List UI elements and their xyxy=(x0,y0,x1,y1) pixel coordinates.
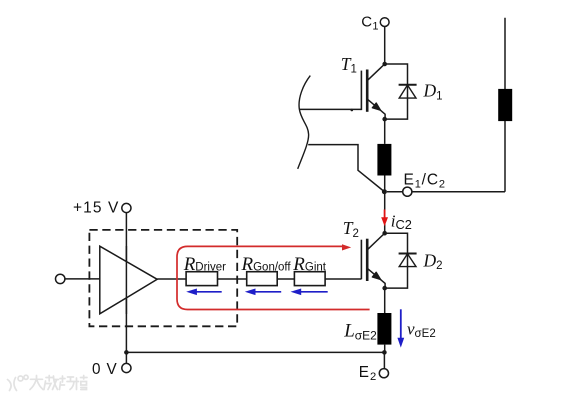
resistor RGint xyxy=(294,272,325,286)
blue arrow under RDriver xyxy=(186,289,222,296)
svg-text:E1/C2: E1/C2 xyxy=(404,171,446,190)
terminal E2 xyxy=(379,369,388,378)
transistor T2 xyxy=(360,240,362,280)
wire D2 branch xyxy=(385,233,408,288)
wire RGon/off to RGint xyxy=(277,278,294,280)
wire +15V vertical xyxy=(125,212,127,352)
wire bottom rail xyxy=(126,351,384,353)
wire E1/C2 to right branch xyxy=(387,191,403,193)
svg-text:T2: T2 xyxy=(343,218,359,240)
transistor T1 xyxy=(360,71,362,111)
node E2 xyxy=(382,350,387,355)
terminal driver input xyxy=(56,274,65,283)
resistor RGon/off xyxy=(247,272,278,286)
wire right branch vertical xyxy=(504,18,506,192)
wire upper emitter return xyxy=(308,145,384,192)
svg-text:C1: C1 xyxy=(361,13,378,32)
svg-text:D1: D1 xyxy=(423,81,443,103)
wire T2 emitter to L xyxy=(384,288,386,313)
blue arrow under RGon/off xyxy=(245,289,281,296)
red gate-current loop xyxy=(177,246,370,309)
wire D1 branch xyxy=(385,64,408,119)
node T2 collector xyxy=(382,231,387,236)
wire E2 stub xyxy=(383,352,385,369)
blue arrow under RGint xyxy=(291,289,328,296)
diode D2 xyxy=(399,253,417,255)
wire RGint to T2 gate xyxy=(325,278,361,280)
svg-text:LσE2: LσE2 xyxy=(343,321,377,343)
wire RDriver to RGon/off xyxy=(218,278,247,280)
wire L to E2 node xyxy=(384,345,386,353)
svg-text:RDriver: RDriver xyxy=(183,254,226,275)
svg-text:+15 V: +15 V xyxy=(73,199,119,216)
wire C1 to T1 collector node xyxy=(384,26,386,64)
wire E1/C2 down to T2 collector xyxy=(384,192,386,234)
wire 0V stub xyxy=(125,352,127,363)
svg-text:iC2: iC2 xyxy=(391,212,412,233)
inductor LsigmaE2 xyxy=(377,313,391,345)
node T1 collector xyxy=(382,62,387,67)
wire driver output xyxy=(157,278,186,280)
inductor right branch xyxy=(498,89,512,121)
svg-text:D2: D2 xyxy=(423,250,443,272)
svg-text:E2: E2 xyxy=(359,364,377,383)
watermark xyxy=(8,375,88,390)
node T1 emitter xyxy=(382,117,387,122)
wire T1 emitter to E1/C2 xyxy=(384,119,386,144)
blue arrow vsigmaE2 xyxy=(397,309,404,347)
wire T1 gate xyxy=(300,108,361,110)
node T2 emitter xyxy=(382,286,387,291)
inductor (stray) upper emitter xyxy=(377,144,391,176)
wire driver input xyxy=(65,278,100,280)
terminal E1/C2 xyxy=(403,187,412,196)
svg-text:0 V: 0 V xyxy=(92,361,118,378)
svg-text:RGon/off: RGon/off xyxy=(241,254,292,275)
node 0V rail xyxy=(124,350,129,355)
terminal 0V xyxy=(122,363,131,372)
svg-text:RGint: RGint xyxy=(292,254,327,275)
wire +15V through triangle xyxy=(125,246,127,314)
break squiggle (upper driver omitted) xyxy=(298,76,311,169)
dashed box driver xyxy=(89,230,237,326)
op-amp driver triangle xyxy=(100,246,157,314)
svg-text:vσE2: vσE2 xyxy=(407,319,436,340)
terminal +15V xyxy=(122,203,131,212)
terminal C1 xyxy=(380,18,389,27)
red arrow iC2 xyxy=(381,210,388,227)
node E1/C2 xyxy=(382,189,387,194)
red loop arrow to T2 gate xyxy=(342,244,351,250)
diode D1 xyxy=(399,84,417,86)
svg-text:T1: T1 xyxy=(341,54,357,76)
resistor RDriver xyxy=(186,272,217,286)
